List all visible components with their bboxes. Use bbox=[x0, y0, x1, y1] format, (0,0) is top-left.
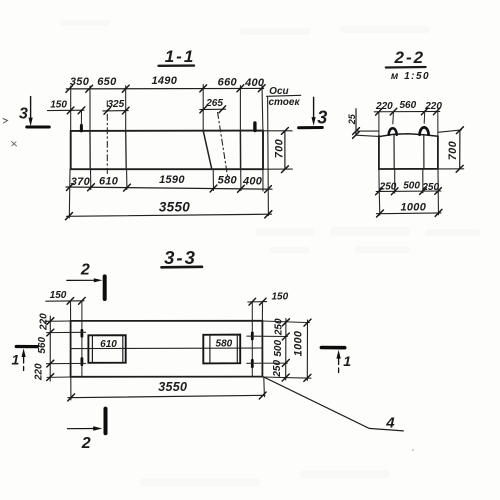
svg-text:265: 265 bbox=[205, 98, 223, 109]
title 2-2 bbox=[386, 48, 430, 82]
svg-text:м 1:50: м 1:50 bbox=[391, 71, 430, 82]
svg-text:610: 610 bbox=[100, 339, 117, 350]
svg-text:400: 400 bbox=[242, 176, 263, 188]
svg-text:1590: 1590 bbox=[159, 174, 185, 186]
svg-text:150: 150 bbox=[50, 99, 67, 110]
leader line to note 4 bbox=[263, 377, 403, 431]
stray scanner mark chevron bbox=[3, 119, 8, 124]
title 3-3 bbox=[162, 247, 203, 268]
sub-dim 150 line bbox=[48, 109, 85, 111]
loop marks left (plan) bbox=[81, 330, 84, 364]
top dimension line bbox=[66, 87, 263, 90]
embed plate 580 outline bbox=[203, 335, 240, 364]
right dim line B ticks bbox=[304, 319, 311, 381]
dim 150 top-left line bbox=[46, 300, 84, 302]
extension lines above section 2-2 bbox=[379, 111, 438, 136]
beam joint line c bbox=[239, 131, 241, 170]
dim 700 (2-2) extensions bbox=[438, 130, 464, 169]
svg-text:250: 250 bbox=[421, 182, 439, 193]
svg-text:1000: 1000 bbox=[400, 202, 426, 214]
left dim ticks (3-3) bbox=[47, 318, 54, 381]
section marker 1 right bbox=[321, 348, 351, 377]
axis dash-dot left embed bbox=[106, 101, 108, 174]
dim 700 (2-2) ticks bbox=[456, 127, 463, 172]
svg-text:250: 250 bbox=[379, 181, 397, 192]
bottom dim line 2 (2-2) bbox=[376, 212, 441, 215]
sub-dim 265 line bbox=[200, 108, 226, 110]
dim 3550 ticks (3-3) bbox=[68, 392, 266, 401]
sub-dim 325 line bbox=[103, 110, 129, 112]
svg-text:220: 220 bbox=[38, 313, 49, 331]
bottom dimension line 1 bbox=[66, 187, 272, 189]
extension lines below beam bbox=[69, 97, 268, 218]
svg-text:220: 220 bbox=[34, 363, 45, 381]
beam slant joint bbox=[203, 131, 212, 170]
svg-text:325: 325 bbox=[107, 99, 124, 110]
svg-text:3550: 3550 bbox=[158, 380, 187, 394]
svg-text:580: 580 bbox=[216, 338, 233, 349]
beam joint line b bbox=[125, 131, 128, 169]
svg-text:2: 2 bbox=[81, 435, 91, 452]
loop marks right (plan) bbox=[251, 333, 254, 367]
dim 150 top-right line bbox=[248, 301, 267, 303]
section 2-2 top surface bbox=[379, 134, 438, 137]
text Оси стоек bbox=[267, 86, 301, 108]
dim 700 (2-2) line bbox=[459, 130, 461, 169]
plan rectangle 3-3 bbox=[71, 321, 263, 377]
svg-text:250: 250 bbox=[273, 318, 284, 336]
dim 3550 ticks (1-1) bbox=[66, 211, 272, 220]
svg-text:150: 150 bbox=[271, 292, 288, 303]
lifting loop left (elevation) bbox=[80, 125, 83, 130]
right dim line A (3-3) bbox=[285, 319, 287, 381]
svg-text:250: 250 bbox=[272, 360, 283, 378]
left dims extension lines (3-3) bbox=[45, 321, 86, 377]
sub-dim 265 ticks bbox=[200, 106, 226, 113]
loop axis line left (plan) bbox=[81, 301, 83, 377]
section marker 2 bottom bbox=[67, 409, 105, 452]
embed plate 610 inner edges bbox=[92, 335, 122, 363]
plan centre line bbox=[71, 347, 263, 350]
lifting loop right (elevation) bbox=[253, 123, 256, 131]
section marker 3 left bbox=[19, 97, 49, 127]
embed plate 610 outline bbox=[88, 335, 125, 363]
svg-text:Оси: Оси bbox=[269, 86, 288, 97]
bottom dim ticks 2 (2-2) bbox=[377, 209, 442, 217]
svg-text:660: 660 bbox=[218, 77, 238, 89]
faint scanner smudges bbox=[60, 20, 480, 486]
svg-text:1: 1 bbox=[12, 351, 20, 367]
bottom dim ticks bbox=[66, 184, 271, 193]
svg-text:650: 650 bbox=[97, 76, 117, 88]
section marker 3 right bbox=[299, 97, 328, 127]
top dim line 2-2 bbox=[374, 110, 440, 112]
dim 25 ticks bbox=[353, 128, 360, 139]
dim 3550 line (1-1) bbox=[67, 214, 272, 216]
section 2-2 body outline bbox=[379, 136, 438, 169]
svg-text:560: 560 bbox=[37, 337, 48, 354]
svg-text:560: 560 bbox=[399, 100, 416, 111]
svg-text:700: 700 bbox=[274, 138, 286, 158]
dim 700 (1-1) ticks bbox=[281, 128, 288, 173]
dim 25 vertical line bbox=[355, 109, 357, 135]
extension lines above beam bbox=[71, 85, 263, 131]
plan left edge extension up bbox=[70, 301, 72, 321]
title 1-1 bbox=[159, 47, 196, 66]
beam joint line a bbox=[89, 131, 91, 169]
svg-text:580: 580 bbox=[218, 175, 238, 187]
top dim ticks 2-2 bbox=[376, 108, 440, 115]
right dim line A ticks bbox=[282, 319, 289, 381]
right dim line B (3-3) bbox=[306, 320, 308, 381]
svg-text:610: 610 bbox=[99, 176, 119, 188]
lifting loop right (2-2) bbox=[420, 127, 429, 134]
loop axis line right (plan) bbox=[251, 302, 253, 377]
svg-text:220: 220 bbox=[424, 101, 442, 112]
svg-text:1000: 1000 bbox=[292, 330, 304, 356]
top dim ticks bbox=[66, 85, 265, 93]
section marker 1 left bbox=[12, 347, 38, 374]
svg-text:400: 400 bbox=[244, 77, 265, 89]
dim 25 reference lines bbox=[356, 131, 379, 136]
embed plate 580 inner edges bbox=[210, 335, 237, 364]
stray dot bbox=[412, 449, 414, 451]
extension lines below section 2-2 bbox=[379, 169, 439, 215]
right dims extension lines (3-3) bbox=[247, 321, 311, 378]
plan right edge extension up bbox=[261, 301, 263, 320]
svg-text:370: 370 bbox=[71, 176, 91, 188]
left dim line vertical (3-3) bbox=[49, 316, 51, 381]
svg-text:3: 3 bbox=[317, 107, 327, 127]
svg-text:350: 350 bbox=[70, 76, 90, 88]
dim 700 (1-1) extension lines bbox=[263, 131, 292, 169]
svg-text:стоек: стоек bbox=[268, 97, 300, 108]
dim 150 top-left ticks bbox=[67, 297, 85, 304]
svg-text:1490: 1490 bbox=[151, 75, 177, 87]
sub-dim 150 ticks bbox=[67, 107, 85, 114]
bottom dim ticks 1 (2-2) bbox=[376, 188, 442, 195]
sub-dim 325 ticks bbox=[104, 107, 129, 114]
lifting loop left (2-2) bbox=[389, 128, 397, 135]
svg-text:3: 3 bbox=[19, 106, 28, 123]
svg-text:2: 2 bbox=[80, 261, 90, 278]
svg-text:2-2: 2-2 bbox=[394, 48, 426, 67]
bottom dim line 1 (2-2) bbox=[376, 190, 441, 193]
bottom 3550 extensions (3-3) bbox=[71, 377, 265, 400]
section marker 2 top bbox=[67, 261, 105, 299]
svg-text:25: 25 bbox=[347, 113, 357, 125]
svg-text:3-3: 3-3 bbox=[164, 247, 197, 268]
svg-text:220: 220 bbox=[375, 101, 393, 112]
svg-text:3550: 3550 bbox=[159, 200, 190, 215]
svg-text:1-1: 1-1 bbox=[165, 47, 196, 66]
dim 700 (1-1) line bbox=[284, 131, 286, 169]
svg-text:700: 700 bbox=[447, 140, 459, 160]
dim 3550 line (3-3) bbox=[68, 395, 265, 397]
svg-text:4: 4 bbox=[385, 414, 395, 431]
svg-text:150: 150 bbox=[50, 290, 67, 301]
section 2-2 inner joint lines bbox=[394, 134, 424, 169]
beam outline 1-1 bbox=[71, 131, 263, 170]
loop extension line bbox=[80, 110, 82, 125]
stray scanner mark x bbox=[12, 142, 17, 147]
svg-text:1: 1 bbox=[343, 353, 351, 369]
svg-text:500: 500 bbox=[273, 340, 284, 357]
dim 150 top-right ticks bbox=[249, 298, 266, 305]
axis dash-dot slanted right embed bbox=[218, 113, 228, 177]
svg-text:500: 500 bbox=[403, 180, 420, 191]
